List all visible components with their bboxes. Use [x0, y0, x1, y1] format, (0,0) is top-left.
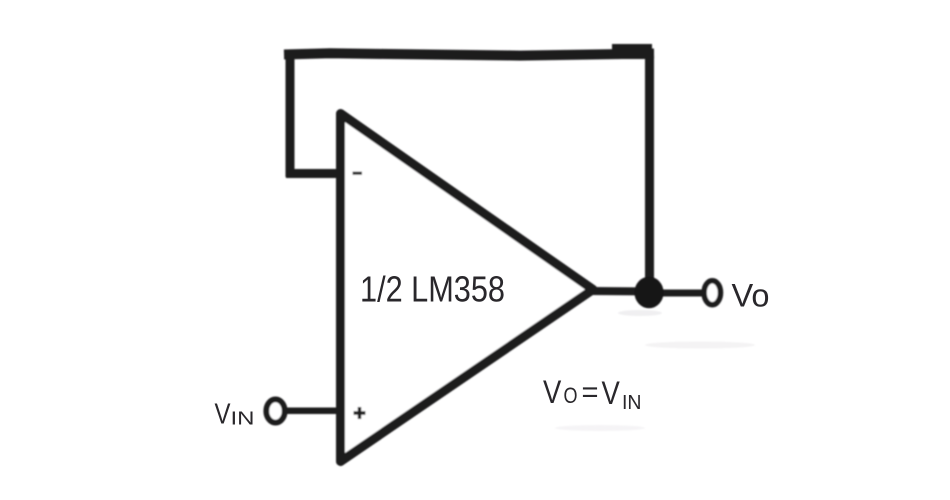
- wire: junction to output terminal: [658, 290, 703, 297]
- input terminal ring Vin: [266, 399, 284, 422]
- svg-text:V: V: [602, 375, 621, 411]
- wire: output from op-amp apex: [590, 287, 650, 296]
- wire: input terminal to non-inverting input: [285, 408, 342, 415]
- wire: thick bump top-right corner: [612, 44, 652, 59]
- op-amp U1 (1/2 LM358) triangle: [341, 114, 594, 462]
- faint scan smudge under equation: [555, 425, 645, 431]
- faint scan smudge below Vo label: [645, 342, 755, 349]
- junction dot at output node: [634, 277, 663, 309]
- svg-text:1/2 LM358: 1/2 LM358: [360, 269, 505, 310]
- pin label: non-inverting input plus: [354, 407, 366, 419]
- faint scan smudge below output node: [618, 310, 662, 316]
- svg-text:V: V: [543, 374, 562, 410]
- wire: feedback right vertical: [645, 50, 654, 292]
- wire: feedback stub to inverting input: [286, 169, 344, 178]
- svg-text:V: V: [215, 399, 232, 431]
- svg-text:=: =: [582, 376, 599, 409]
- svg-text:IN: IN: [231, 408, 255, 429]
- wire: feedback top horizontal: [284, 53, 654, 55]
- output terminal ring Vo: [704, 281, 720, 305]
- wire: feedback left vertical: [286, 50, 295, 177]
- pin label: inverting input minus: [353, 172, 363, 175]
- svg-text:Vo: Vo: [732, 277, 770, 313]
- svg-text:O: O: [564, 383, 578, 408]
- svg-text:IN: IN: [622, 391, 642, 414]
